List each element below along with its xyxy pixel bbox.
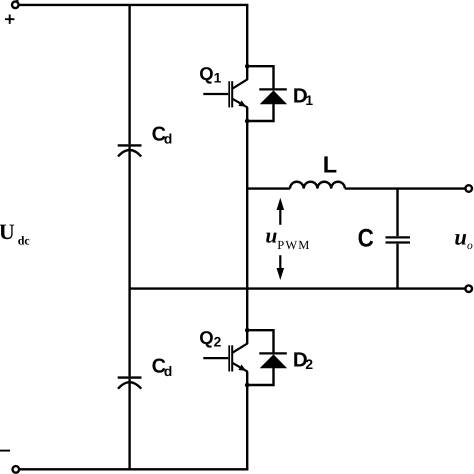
svg-text:u: u (265, 223, 277, 247)
svg-text:PWM: PWM (277, 238, 310, 252)
svg-text:o: o (467, 240, 473, 252)
svg-text:L: L (323, 151, 337, 177)
svg-text:C: C (358, 224, 374, 252)
svg-text:u: u (454, 224, 467, 249)
